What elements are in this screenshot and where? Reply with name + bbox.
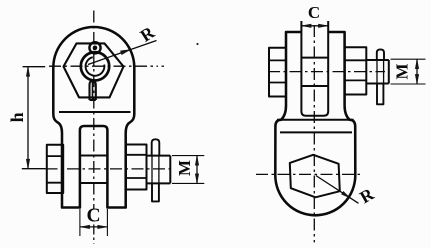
M dimension right figure (391, 59, 426, 84)
hex nut front left view (64, 43, 124, 97)
scan speck (196, 43, 198, 45)
socket top edge right view (277, 119, 354, 121)
svg-text:C: C (308, 3, 320, 22)
clevis body right view (275, 32, 355, 215)
svg-text:C: C (86, 206, 100, 227)
bolt head right view (269, 48, 286, 97)
svg-text:R: R (136, 22, 158, 46)
bolt stub end left figure (147, 156, 171, 184)
centerlines right figure (256, 25, 385, 242)
bolt shank through slot left view (80, 156, 108, 184)
hex nut right view (290, 155, 340, 198)
h dimension left figure (22, 67, 46, 169)
centerlines left figure (46, 11, 174, 244)
inner seat arc left view (86, 57, 105, 76)
bolt head left view (47, 145, 63, 193)
R leader right figure (316, 176, 359, 204)
R leader left figure (88, 41, 157, 65)
cotter ring top left view (89, 42, 100, 53)
nut side view left figure (126, 145, 147, 190)
nut side view right figure (345, 47, 367, 94)
svg-text:M: M (392, 63, 411, 79)
svg-text:R: R (356, 183, 377, 207)
svg-text:M: M (175, 160, 194, 176)
socket chord line left view (59, 111, 131, 113)
socket chord line right view (280, 131, 352, 133)
eye circle left view (81, 52, 109, 80)
slot in fork right view (301, 21, 328, 116)
C dimension right figure (302, 24, 328, 28)
cotter pin right figure (377, 49, 384, 59)
split pin below nut left view (90, 81, 96, 100)
M dimension left figure (172, 156, 204, 184)
bolt shank through slot right view (301, 58, 328, 86)
bolt stub end right figure (366, 60, 389, 84)
cotter pin right of nut left figure (152, 139, 160, 155)
clevis body left view (53, 27, 134, 208)
C dimension left figure (80, 209, 108, 236)
svg-text:h: h (7, 112, 27, 122)
